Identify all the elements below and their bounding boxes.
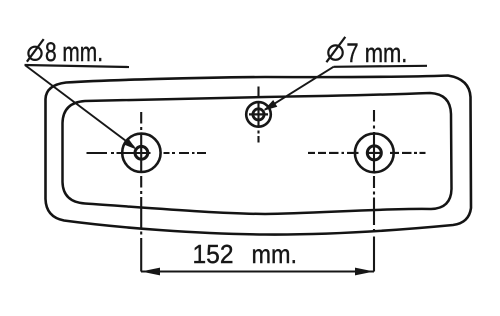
center cross bar top hole — [249, 113, 268, 115]
leader arrowhead Ø7 — [263, 100, 277, 111]
label Ø7 underline — [334, 66, 428, 67]
svg-text:mm.: mm. — [252, 239, 298, 269]
label Ø7 diameter symbol — [326, 37, 345, 62]
centerline vertical top hole — [257, 87, 259, 143]
svg-text:152: 152 — [193, 239, 234, 269]
dimension arrow right — [355, 268, 374, 276]
extension line right (solid) — [373, 237, 375, 272]
outer housing outline — [46, 76, 472, 235]
hole top Ø7 inner circle — [253, 109, 264, 120]
inner housing outline — [63, 93, 452, 214]
leader line Ø8 — [26, 66, 135, 148]
hole left Ø8 inner circle — [135, 146, 148, 159]
dimension arrow left — [141, 268, 160, 276]
centerline vertical left hole — [140, 112, 142, 235]
svg-text:8 mm.: 8 mm. — [45, 37, 103, 67]
label Ø8 underline — [25, 65, 130, 67]
label Ø8 diameter symbol — [27, 39, 44, 62]
svg-text:7 mm.: 7 mm. — [346, 38, 407, 68]
extension line left (solid) — [140, 238, 142, 272]
dimension line 152 mm — [141, 271, 374, 273]
centerline horizontal left hole — [87, 152, 207, 154]
hole left Ø8 outer circle — [122, 134, 160, 172]
centerline horizontal right hole — [308, 152, 426, 154]
hole right Ø8 inner circle — [367, 146, 381, 160]
leader line Ø7 — [265, 67, 334, 110]
hole top Ø7 outer circle — [246, 102, 271, 127]
hole right Ø8 outer circle — [355, 134, 394, 173]
centerline vertical right hole — [373, 110, 375, 232]
leader arrowhead Ø8 — [123, 138, 136, 150]
